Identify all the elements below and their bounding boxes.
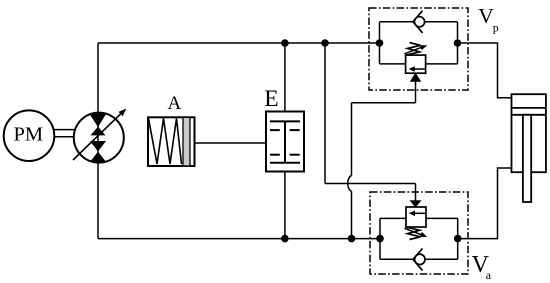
valve block Vp dash-dot box — [369, 8, 468, 90]
Va loop wires — [380, 218, 458, 259]
node: Vp left dot — [376, 39, 384, 47]
wire: Vp pilot down segment — [415, 81, 417, 103]
wire: crossover hop at (351.5,183.5) — [348, 176, 352, 192]
node: junction dot top rail branch x=325 — [321, 39, 329, 47]
node: Va right dot — [454, 235, 462, 243]
svg-text:PM: PM — [14, 123, 44, 145]
svg-text:p: p — [493, 21, 499, 35]
svg-text:a: a — [486, 268, 492, 282]
component A gray piston bar — [183, 117, 190, 166]
component E internals — [270, 121, 300, 162]
wire: E bottom vertical — [284, 172, 286, 239]
wire: branch vertical x=325 to Va pilot — [324, 43, 326, 184]
node: junction dot above E on top rail — [281, 39, 289, 47]
cylinder rod — [523, 115, 531, 202]
svg-text:V: V — [478, 4, 494, 28]
node: Vp right dot — [454, 39, 462, 47]
wire: horizontal y=183.5 to Va pilot riser — [325, 183, 416, 185]
Va relief valve spring — [407, 227, 421, 239]
shaft between PM and pump — [54, 130, 74, 137]
wire: pump bottom vertical — [97, 162, 99, 238]
node: junction dot below E on bottom rail — [281, 235, 289, 243]
pump bottom hourglass triangles — [90, 141, 106, 152]
wire: E top vertical — [284, 43, 286, 112]
pump vertical line through circle — [97, 113, 99, 162]
cylinder body — [512, 94, 546, 172]
wire: Vp output to cylinder top — [458, 43, 512, 98]
Va relief valve square — [406, 207, 426, 227]
Va relief adjustment arrow — [405, 228, 424, 235]
wire: top rail from pump to Vp — [98, 42, 380, 44]
wire: Va pilot riser — [415, 184, 417, 202]
svg-text:A: A — [168, 93, 182, 114]
component A spring zigzag — [149, 119, 182, 165]
node: Va left dot — [376, 235, 384, 243]
wire: Vp pilot vertical lower part — [351, 191, 353, 238]
wire: A to E link — [195, 142, 267, 144]
wire: pump top vertical — [97, 43, 99, 113]
Vp relief valve flow arrow — [414, 68, 426, 70]
pump P1 circle — [74, 113, 124, 163]
Vp relief adjustment arrow — [405, 47, 424, 54]
wire: Va output to cylinder bottom — [458, 168, 512, 239]
pump variable-displacement arrow — [73, 113, 122, 160]
component E outer box — [266, 112, 304, 172]
pump top hourglass triangles — [89, 114, 106, 127]
valve block Va dash-dot box — [370, 192, 468, 274]
Va pilot arrowhead — [411, 201, 420, 206]
component A spring housing box — [148, 117, 195, 166]
svg-text:E: E — [264, 86, 278, 112]
Va relief valve flow arrow — [414, 212, 426, 214]
Vp pilot arrowhead — [411, 74, 420, 81]
prime mover PM circle — [4, 110, 55, 161]
wire: bottom rail from pump to Va — [98, 238, 380, 240]
Vp loop wires — [380, 22, 458, 64]
cylinder piston lines — [512, 108, 546, 115]
wire: Vp pilot vertical upper part — [351, 103, 353, 176]
Vp check valve circle and seat — [414, 17, 424, 27]
Vp relief valve spring — [407, 43, 421, 55]
node: junction dot Vp pilot on bottom rail — [348, 235, 356, 243]
Vp relief valve square — [406, 55, 426, 73]
wire: Vp pilot horizontal — [352, 102, 416, 104]
Va check valve circle and seat — [415, 254, 425, 264]
